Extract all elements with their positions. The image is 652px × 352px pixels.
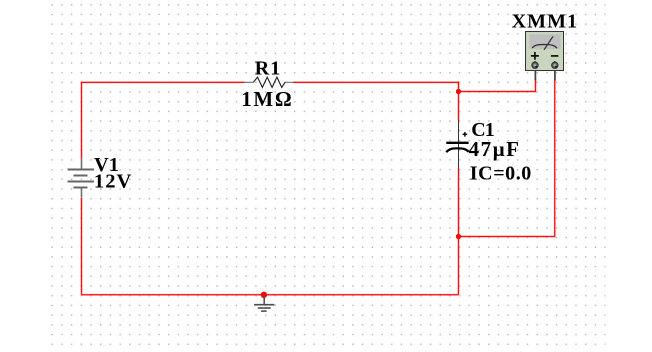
wire: branch from node A to multimeter + terminal	[459, 80, 536, 92]
capacitor C1	[446, 121, 469, 169]
value label 1M&#937;	[241, 87, 291, 111]
wire: capacitor bottom lead red part	[457, 169, 459, 237]
label R1	[255, 58, 280, 80]
wire: branch from node B to multimeter - terminal	[459, 80, 555, 237]
wire: bottom horizontal segment	[82, 294, 459, 296]
wire: left vertical lower segment	[80, 198, 82, 295]
svg-text:1MΩ: 1MΩ	[241, 87, 291, 111]
ground node junction dot	[261, 292, 267, 298]
ground	[254, 295, 274, 311]
wire: node B down to bottom rail	[457, 237, 459, 295]
wire: capacitor top lead red part	[457, 92, 459, 121]
value label IC=0.0	[470, 162, 532, 184]
svg-text:47µF: 47µF	[469, 137, 519, 161]
multimeter XMM1	[526, 32, 564, 81]
wire: top horizontal right segment	[294, 81, 459, 83]
wire: multimeter + terminal stub	[534, 71, 536, 81]
value label 47&#181;F	[469, 137, 519, 161]
svg-text:IC=0.0: IC=0.0	[470, 162, 532, 184]
label V1	[94, 154, 119, 176]
svg-text:XMM1: XMM1	[512, 11, 577, 33]
label C1	[471, 119, 495, 141]
wire: right vertical from top corner to node A	[457, 82, 459, 92]
node A junction dot	[456, 89, 461, 94]
wire: multimeter - terminal stub	[554, 71, 556, 81]
wire: left vertical upper segment	[80, 82, 82, 158]
battery V1	[68, 158, 95, 198]
wire: top horizontal left segment	[82, 81, 245, 83]
label XMM1	[512, 11, 577, 33]
node B junction dot	[456, 234, 461, 239]
svg-text:R1: R1	[255, 58, 280, 80]
resistor R1	[244, 77, 294, 87]
value label 12V	[94, 171, 132, 193]
svg-text:12V: 12V	[94, 171, 132, 193]
